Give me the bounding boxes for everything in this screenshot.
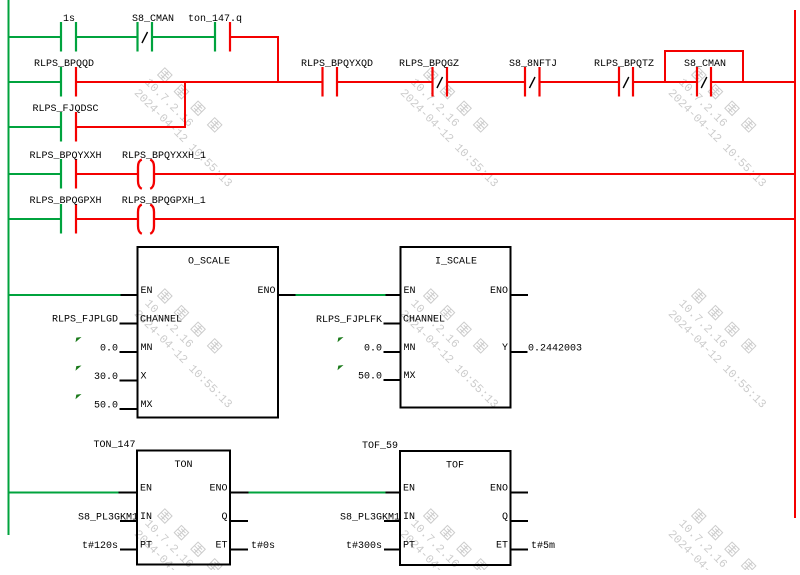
wire rung4 to coil [76, 218, 139, 220]
contact RLPS_BPQGZ (NC) [399, 59, 459, 97]
svg-text:S8_CMAN: S8_CMAN [132, 14, 174, 25]
svg-text:EN: EN [404, 286, 416, 297]
svg-text:MX: MX [404, 371, 416, 382]
wire stub I_SCALE CHANNEL [384, 323, 401, 325]
svg-text:RLPS_BPQYXQD: RLPS_BPQYXQD [301, 59, 373, 70]
contact RLPS_BPQGPXH [30, 196, 102, 234]
svg-text:t#120s: t#120s [82, 541, 118, 552]
svg-text:RLPS_BPQGZ: RLPS_BPQGZ [399, 59, 459, 70]
wire stub I_SCALE Y [511, 351, 528, 353]
svg-text:ENO: ENO [490, 286, 508, 297]
svg-text:RLPS_FJPLGD: RLPS_FJPLGD [52, 315, 118, 326]
svg-text:0.0: 0.0 [100, 344, 118, 355]
svg-text:TOF: TOF [446, 461, 464, 472]
svg-text:t#300s: t#300s [346, 541, 382, 552]
wire rung1 rail to contact 1s [9, 36, 62, 38]
wire stub I_SCALE MN [384, 351, 401, 353]
wire stub TOF ENO [511, 492, 529, 494]
svg-text:0.0: 0.0 [364, 344, 382, 355]
wire stub O_SCALE X [120, 380, 138, 382]
wire rung3 coil to right rail [154, 173, 797, 175]
svg-text:PT: PT [403, 541, 415, 552]
wire TON ENO to TOF EN [249, 492, 386, 494]
contact 1s [61, 14, 76, 52]
svg-text:ET: ET [496, 541, 508, 552]
coil RLPS_BPQGPXH_1 [138, 205, 154, 234]
wire stub O_SCALE ENO [278, 294, 296, 296]
wire stub I_SCALE ENO [511, 294, 529, 296]
wire stub I_SCALE EN [386, 294, 401, 296]
svg-text:CHANNEL: CHANNEL [140, 315, 182, 326]
svg-text:Y: Y [502, 343, 508, 354]
svg-text:TOF_59: TOF_59 [362, 441, 398, 452]
svg-text:RLPS_BPQYXXH: RLPS_BPQYXXH [30, 151, 102, 162]
svg-text:Q: Q [221, 512, 227, 523]
svg-text:t#0s: t#0s [251, 541, 275, 552]
svg-text:Q: Q [502, 512, 508, 523]
wire stub TON PT [120, 549, 137, 551]
wire stub O_SCALE MX [120, 408, 138, 410]
wire stub TOF ET [511, 549, 529, 551]
wire rung2 8NFTJ to BPQTZ [540, 81, 620, 83]
wire stub O_SCALE CHANNEL [120, 323, 138, 325]
wire stub TOF Q [511, 520, 529, 522]
wire stub I_SCALE MX [384, 379, 401, 381]
svg-text:t#5m: t#5m [531, 541, 555, 552]
svg-text:0.2442003: 0.2442003 [528, 344, 582, 355]
contact RLPS_BPQQD [34, 59, 94, 97]
coil RLPS_BPQYXXH_1 [138, 160, 154, 189]
svg-text:50.0: 50.0 [94, 401, 118, 412]
svg-text:S8_PL3GKM1: S8_PL3GKM1 [340, 513, 400, 524]
svg-text:IN: IN [403, 512, 415, 523]
wire rung1 drop to rung2 [277, 37, 279, 82]
contact S8_8NFTJ (NC) [509, 59, 557, 97]
wire rung2 BPQGZ to 8NFTJ [447, 81, 525, 83]
svg-text:ET: ET [215, 541, 227, 552]
input force marker [338, 337, 344, 342]
svg-text:RLPS_BPQGPXH: RLPS_BPQGPXH [30, 196, 102, 207]
wire stub O_SCALE EN [121, 294, 138, 296]
svg-text:I_SCALE: I_SCALE [435, 257, 477, 268]
svg-text:ENO: ENO [209, 484, 227, 495]
wire rung2 BPQTZ to S8_CMAN [633, 81, 697, 83]
svg-text:RLPS_BPQYXXH_1: RLPS_BPQYXXH_1 [122, 151, 206, 162]
svg-text:MX: MX [141, 400, 153, 411]
svg-text:RLPS_FJPLFK: RLPS_FJPLFK [316, 315, 382, 326]
svg-text:1s: 1s [63, 14, 75, 25]
svg-text:IN: IN [140, 512, 152, 523]
wire rung4 coil to right rail [154, 218, 797, 220]
input force marker [76, 366, 82, 371]
wire rail to O_SCALE EN [9, 294, 121, 296]
contact S8_CMAN (NC) rung2 [684, 59, 726, 97]
svg-text:TON: TON [175, 460, 193, 471]
left power rail [8, 0, 10, 535]
svg-text:ton_147.q: ton_147.q [188, 14, 242, 25]
wire rung1 S8_CMAN to ton_147.q [152, 36, 215, 38]
bypass branch around S8_CMAN [665, 51, 743, 82]
wire rung2 BPQYXQD to BPQGZ [337, 81, 433, 83]
wire stub TON Q [230, 520, 248, 522]
svg-text:CHANNEL: CHANNEL [403, 315, 445, 326]
svg-text:S8_PL3GKM1: S8_PL3GKM1 [78, 513, 138, 524]
contact S8_CMAN (NC) [132, 14, 174, 52]
wire rung3 rail to RLPS_BPQYXXH [9, 173, 62, 175]
svg-text:MN: MN [141, 343, 153, 354]
svg-text:PT: PT [140, 541, 152, 552]
wire branch FJQDSC to riser [76, 126, 186, 128]
wire rail to TON EN [9, 492, 119, 494]
wire rung2 rail to RLPS_BPQQD [9, 81, 62, 83]
svg-text:S8_8NFTJ: S8_8NFTJ [509, 59, 557, 70]
wire branch rail to RLPS_FJQDSC [9, 126, 62, 128]
svg-text:X: X [141, 372, 147, 383]
wire branch riser to rung2 [184, 82, 186, 127]
input force marker [76, 337, 82, 342]
svg-text:MN: MN [404, 343, 416, 354]
wire stub TOF IN [384, 520, 400, 522]
wire O_SCALE ENO to I_SCALE EN [296, 294, 386, 296]
contact RLPS_BPQYXXH [30, 151, 102, 189]
svg-text:O_SCALE: O_SCALE [188, 257, 230, 268]
function block U1 O_SCALE [138, 247, 279, 418]
wire stub TON ENO [230, 492, 249, 494]
svg-text:RLPS_FJQDSC: RLPS_FJQDSC [33, 104, 99, 115]
wire stub TON IN [120, 520, 137, 522]
wire rung4 rail to RLPS_BPQGPXH [9, 218, 62, 220]
wire stub TON ET [230, 549, 248, 551]
function block U2 I_SCALE [401, 247, 511, 408]
svg-text:EN: EN [403, 484, 415, 495]
function block U4 TOF (TOF_59) [400, 451, 511, 565]
svg-text:TON_147: TON_147 [94, 440, 136, 451]
input force marker [76, 394, 82, 399]
svg-text:50.0: 50.0 [358, 372, 382, 383]
contact ton_147.q [188, 14, 242, 52]
svg-text:RLPS_BPQTZ: RLPS_BPQTZ [594, 59, 654, 70]
contact RLPS_BPQTZ (NC) [594, 59, 654, 97]
svg-text:RLPS_BPQGPXH_1: RLPS_BPQGPXH_1 [122, 196, 206, 207]
wire stub O_SCALE MN [120, 351, 138, 353]
svg-text:EN: EN [140, 484, 152, 495]
wire stub TOF EN [386, 492, 401, 494]
wire stub TON EN [119, 492, 138, 494]
svg-text:ENO: ENO [257, 286, 275, 297]
wire rung1 output [230, 36, 279, 38]
function block U3 TON (TON_147) [137, 451, 230, 565]
contact RLPS_FJQDSC [33, 104, 99, 142]
wire stub TOF PT [384, 549, 400, 551]
contact RLPS_BPQYXQD [301, 59, 373, 97]
wire rung1 1s to S8_CMAN [76, 36, 138, 38]
svg-text:ENO: ENO [490, 484, 508, 495]
svg-text:S8_CMAN: S8_CMAN [684, 59, 726, 70]
right return rail [794, 10, 796, 518]
wire rung3 to coil [76, 173, 139, 175]
svg-text:RLPS_BPQQD: RLPS_BPQQD [34, 59, 94, 70]
svg-text:EN: EN [141, 286, 153, 297]
wire rung2 BPQQD to BPQYXQD [76, 81, 323, 83]
input force marker [338, 365, 344, 370]
wire rung2 to right rail [711, 81, 796, 83]
svg-text:30.0: 30.0 [94, 372, 118, 383]
